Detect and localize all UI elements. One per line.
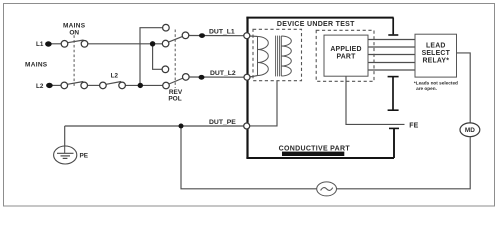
svg-text:SELECT: SELECT [422,50,451,57]
svg-text:POL: POL [168,95,181,102]
svg-text:L1: L1 [36,41,44,48]
svg-text:L2: L2 [111,72,119,79]
svg-text:PART: PART [336,54,356,61]
svg-text:are open.: are open. [416,86,437,91]
svg-text:FE: FE [409,123,418,130]
svg-text:DUT_L1: DUT_L1 [209,28,235,35]
svg-text:CONDUCTIVE PART: CONDUCTIVE PART [279,146,351,153]
svg-text:APPLIED: APPLIED [330,46,361,53]
svg-text:ON: ON [69,29,79,36]
svg-text:MAINS: MAINS [25,62,48,69]
svg-text:DEVICE UNDER TEST: DEVICE UNDER TEST [277,21,355,28]
svg-text:PE: PE [80,152,89,159]
svg-text:RELAY*: RELAY* [422,57,449,64]
svg-text:DUT_PE: DUT_PE [209,119,236,126]
svg-text:L2: L2 [36,83,44,90]
svg-text:MD: MD [465,127,475,134]
svg-text:DUT_L2: DUT_L2 [210,70,236,77]
svg-text:LEAD: LEAD [426,42,446,49]
svg-text:*Leads not selected: *Leads not selected [414,81,458,86]
